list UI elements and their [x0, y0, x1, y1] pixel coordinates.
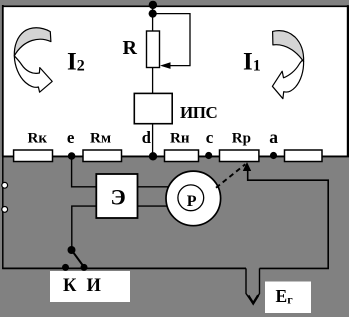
- EMF element Eg (probe symbol): [246, 268, 260, 303]
- label plate Eg: [265, 282, 311, 314]
- galvanometer P outer: [166, 171, 221, 226]
- svg-text:c: c: [206, 128, 214, 147]
- switch blade: [72, 250, 85, 267]
- wire: top feed into rheostat R: [152, 6, 154, 31]
- switch contact I: [81, 264, 88, 271]
- svg-text:Rн: Rн: [170, 130, 190, 146]
- junction dot lower: [149, 10, 157, 18]
- resistor Rm: [83, 150, 122, 162]
- resistor Rk: [14, 150, 53, 162]
- wiper arrowhead on Rp: [243, 162, 251, 171]
- node e: [68, 152, 76, 160]
- dashed adjust arrow from P to Rp wiper: [216, 164, 245, 188]
- panel border right: [347, 5, 349, 156]
- wire: amplifier lower input to switch pivot: [72, 206, 97, 250]
- wire: left bus down from panel: [2, 156, 4, 269]
- svg-text:Р: Р: [187, 193, 197, 210]
- wire: resistor row bus (panel bottom edge): [2, 155, 349, 157]
- node a: [270, 152, 277, 159]
- white schematic panel: [2, 5, 347, 157]
- terminal post lower: [2, 207, 8, 213]
- panel border top: [2, 5, 349, 7]
- wire: amplifier outputs to galvanometer: [138, 186, 176, 188]
- svg-text:К: К: [63, 276, 77, 296]
- resistor Rn: [165, 150, 199, 162]
- terminal post upper: [2, 182, 8, 188]
- svg-text:Rм: Rм: [90, 130, 111, 146]
- svg-text:И: И: [87, 276, 102, 296]
- wire: wiper loop of R: [153, 14, 190, 66]
- svg-text:Rр: Rр: [232, 130, 251, 146]
- rheostat R: [147, 31, 160, 68]
- wire: bottom bus left section: [2, 267, 246, 269]
- curved arrow I2 (left, counterclockwise): [14, 28, 52, 92]
- svg-text:R: R: [123, 37, 138, 59]
- wire: node e to amplifier input: [72, 156, 97, 187]
- switch label plate K I: [50, 271, 130, 302]
- junction dot upper: [149, 1, 157, 9]
- node d: [149, 152, 157, 160]
- wire: R to IPS: [152, 68, 154, 94]
- end resistor (unlabeled): [285, 150, 323, 162]
- svg-text:Э: Э: [111, 185, 126, 210]
- svg-text:e: e: [67, 128, 75, 147]
- switch contact K: [62, 264, 69, 271]
- svg-text:a: a: [269, 127, 278, 147]
- node c: [205, 152, 212, 159]
- galvanometer P inner: [178, 185, 204, 211]
- power supply IPS box: [134, 93, 172, 123]
- svg-text:ИПС: ИПС: [180, 103, 217, 122]
- svg-text:d: d: [142, 128, 151, 147]
- switch pivot dot: [68, 246, 76, 254]
- curved arrow I1 (right, clockwise): [272, 31, 303, 99]
- amplifier box: [96, 174, 137, 218]
- svg-text:Rк: Rк: [28, 130, 48, 146]
- wire: Rp wiper to right bus: [248, 171, 329, 268]
- resistor Rp: [220, 150, 259, 162]
- panel border left: [2, 5, 4, 157]
- wire: IPS to node d: [152, 124, 154, 156]
- wiper arrowhead on R: [160, 62, 171, 69]
